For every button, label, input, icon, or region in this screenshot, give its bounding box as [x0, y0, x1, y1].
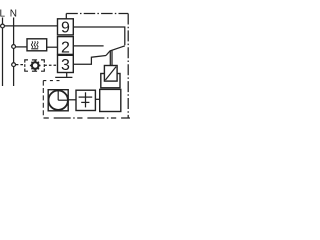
enclosure boundary bottom dash-dot [44, 117, 131, 119]
wire heater to terminal 2 [47, 46, 58, 48]
terminal 9 [58, 19, 74, 35]
clock hand 3 [58, 99, 67, 101]
terminal 3 [58, 55, 74, 72]
sensor diagonal [105, 67, 116, 80]
connector stub under terminal 3 [66, 73, 68, 77]
switch blade [106, 46, 125, 56]
wire limiter to sensor body [95, 98, 99, 100]
heater box [27, 39, 47, 51]
heater symbol flame 3 [37, 41, 38, 47]
heater symbol flame 1 [31, 41, 32, 47]
limiter vertical [85, 92, 87, 107]
clock module dashed left edge [42, 81, 44, 118]
clock box [48, 90, 68, 111]
limiter short bar [81, 101, 89, 103]
clock module dashed top edge [43, 80, 62, 82]
sensor box [104, 66, 117, 82]
wire clock to limiter [68, 99, 76, 101]
wire N rail middle [13, 48, 15, 62]
sensor body box [100, 89, 121, 111]
enclosure stub above terminal 9 [65, 14, 67, 19]
clock hand 12 [57, 91, 59, 100]
sensor wire left [109, 51, 111, 66]
sensor wire right [111, 50, 113, 65]
node N2 [12, 63, 16, 67]
gear box dashed [25, 60, 45, 71]
wire L node to terminal 9 [4, 25, 57, 27]
limiter box [76, 90, 95, 110]
connector crossbar [55, 76, 72, 78]
node N1 [12, 45, 16, 49]
heater symbol bar [31, 48, 38, 50]
wire terminal 3 step to blade pivot [73, 56, 106, 65]
enclosure boundary right dash-dot [127, 14, 129, 119]
heater symbol flame 2 [34, 41, 35, 47]
wire L rail upper [2, 18, 4, 25]
wire N1 to heater [16, 46, 27, 48]
wire L rail lower [2, 28, 4, 86]
wire gear to terminal 3 dashed [44, 64, 57, 66]
wire terminal 9 to switch corner [73, 27, 125, 45]
clock face [49, 91, 68, 110]
svg-text:2: 2 [61, 40, 70, 57]
wire N rail upper [13, 18, 15, 45]
gear symbol [30, 60, 41, 71]
node on L rail [1, 24, 5, 28]
svg-text:9: 9 [61, 20, 70, 37]
sensor collar box [101, 74, 120, 88]
limiter long bar [79, 96, 93, 98]
wire N rail lower [13, 67, 15, 87]
switch fixed contact from terminal 2 [73, 45, 103, 47]
wire N2 to gear dashed [16, 64, 25, 66]
svg-text:3: 3 [61, 57, 70, 74]
terminal 2 [58, 37, 74, 55]
enclosure boundary top dash-dot [66, 13, 128, 15]
